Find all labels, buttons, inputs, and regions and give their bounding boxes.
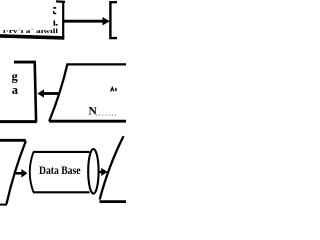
- svg-text:a: a: [12, 83, 19, 97]
- svg-text:g: g: [12, 70, 19, 84]
- svg-text:ı·rvʾı aʾ aıwıll: ı·rvʾı aʾ aıwıll: [3, 28, 58, 35]
- svg-text:Data Base: Data Base: [39, 165, 81, 177]
- svg-text:.......: .......: [96, 108, 118, 117]
